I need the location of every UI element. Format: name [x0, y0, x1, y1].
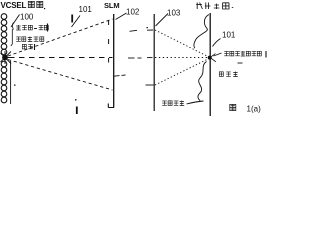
- annotation bracket line1: [12, 23, 13, 30]
- figure caption 1(a): [247, 105, 262, 114]
- svg-text:101: 101: [79, 5, 93, 14]
- bottom annotation text blobs: [162, 101, 184, 106]
- speck left of lens 103: [147, 27, 148, 28]
- svg-text:1(a): 1(a): [247, 105, 262, 114]
- leader for 101: [72, 16, 81, 28]
- speck near substrate: [14, 85, 16, 86]
- annotation text line2 row2 blobs: [22, 44, 34, 50]
- leader from focus to text1: [214, 53, 222, 56]
- converging ray middle dotted: [155, 57, 209, 59]
- label 101 right (imaging plane): [222, 31, 236, 40]
- mid band middle ray dashes: [128, 57, 153, 59]
- label 102: [126, 8, 140, 17]
- right annotation text1 blobs: [224, 51, 266, 58]
- wavy leader upper (imaging plane squiggle): [194, 15, 209, 49]
- label VCSEL array chinese glyphs: [28, 1, 45, 9]
- svg-text:101: 101: [222, 31, 236, 40]
- focus point dot: [208, 56, 212, 60]
- annotation bracket line2: [11, 29, 13, 46]
- figure caption chinese glyph: [230, 104, 236, 110]
- VCSEL array label text: [1, 1, 27, 10]
- leader for 100: [11, 15, 20, 28]
- lens 101 bottom dash and tick: [75, 99, 77, 114]
- emitting point star: [1, 51, 13, 64]
- array substrate line: [10, 61, 12, 104]
- label 103: [167, 9, 181, 18]
- SLM bottom foot: [108, 104, 114, 108]
- mid band upper ray dashes: [130, 30, 154, 31]
- mid band lower ray dashes: [114, 75, 154, 85]
- label 100: [20, 13, 34, 22]
- svg-text:103: 103: [167, 9, 181, 18]
- ray A (upper, star to SLM top) dashed: [8, 19, 113, 56]
- leader for 102: [116, 13, 127, 20]
- imaging plane line: [209, 13, 211, 116]
- svg-text:102: 102: [126, 8, 140, 17]
- annotation text line2 row1 blobs: [16, 37, 44, 42]
- ray C (lower, star to SLM bottom) dashed: [8, 60, 113, 91]
- SLM dashed companion line: [108, 20, 110, 63]
- SLM label: [104, 1, 120, 10]
- lens 103 line: [153, 14, 155, 111]
- imaging plane label chinese: [196, 3, 233, 10]
- dash below text1: [238, 62, 243, 64]
- annotation text line1 blobs: [16, 24, 48, 32]
- converging ray lower dotted: [155, 59, 209, 86]
- label 101: [79, 5, 93, 14]
- VCSEL array circles column: [1, 14, 7, 103]
- wavy leader lower squiggle: [198, 62, 207, 101]
- svg-text:VCSEL: VCSEL: [1, 1, 27, 10]
- svg-text:100: 100: [20, 13, 34, 22]
- leader for right 101: [213, 39, 221, 47]
- ray B (middle horizontal) dashed: [9, 57, 113, 59]
- ray stubs past focus: [211, 54, 216, 62]
- SLM 102 main line: [113, 14, 115, 108]
- leader for 103: [156, 14, 169, 27]
- right annotation text2 blobs: [219, 72, 238, 77]
- lens 101 top tick: [71, 15, 73, 23]
- converging ray upper (lens 103 to focus) dotted: [155, 30, 209, 57]
- leader from bottom text: [187, 101, 204, 104]
- svg-text:SLM: SLM: [104, 1, 120, 10]
